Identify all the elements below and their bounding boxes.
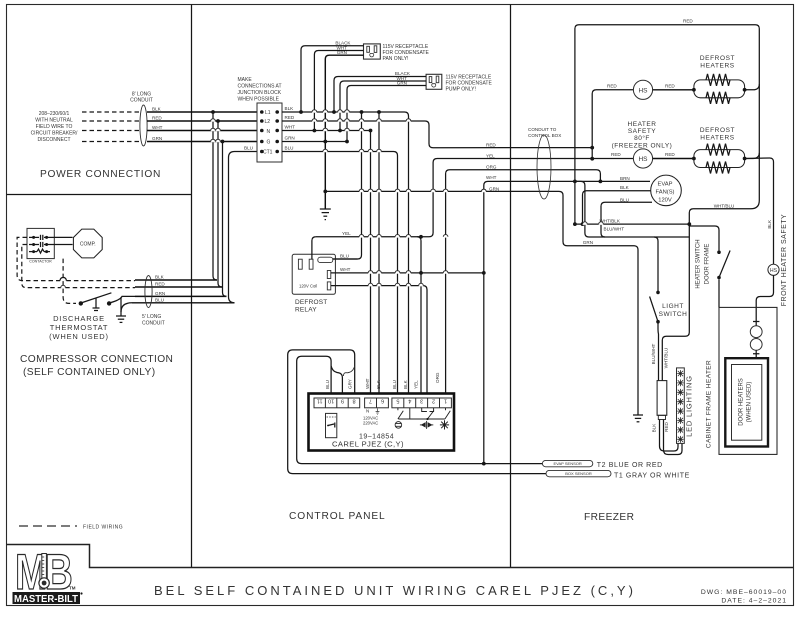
svg-text:BLK: BLK — [652, 423, 657, 433]
svg-text:HEATER: HEATER — [628, 121, 657, 128]
svg-text:CABINET FRAME HEATER: CABINET FRAME HEATER — [706, 360, 713, 448]
svg-text:BOX SENSOR: BOX SENSOR — [565, 471, 592, 476]
svg-text:80°F: 80°F — [634, 134, 650, 142]
svg-text:WHT: WHT — [486, 175, 497, 180]
svg-text:FREEZER: FREEZER — [584, 512, 634, 523]
svg-text:LIGHT: LIGHT — [662, 303, 684, 310]
svg-text:11: 11 — [317, 398, 323, 404]
svg-text:GRN: GRN — [152, 136, 162, 141]
svg-text:FRONT HEATER SAFETY: FRONT HEATER SAFETY — [781, 214, 788, 306]
svg-text:PAN ONLY!: PAN ONLY! — [383, 56, 409, 62]
svg-text:BLU/WHT: BLU/WHT — [604, 227, 625, 232]
svg-text:WHT: WHT — [152, 125, 163, 130]
svg-text:RED: RED — [611, 152, 621, 157]
svg-text:T2 BLUE OR RED: T2 BLUE OR RED — [597, 462, 663, 469]
svg-text:N: N — [366, 409, 369, 414]
svg-text:5' LONG: 5' LONG — [142, 314, 161, 320]
svg-text:JUNCTION BLOCK: JUNCTION BLOCK — [238, 90, 282, 96]
svg-text:ORG: ORG — [486, 165, 497, 170]
svg-text:EVAP: EVAP — [657, 182, 672, 188]
svg-text:RED: RED — [665, 152, 675, 157]
svg-text:GRN: GRN — [155, 291, 165, 296]
svg-text:YEL: YEL — [342, 231, 351, 236]
svg-text:3: 3 — [420, 398, 423, 404]
svg-text:COMP.: COMP. — [80, 242, 96, 248]
svg-text:L2: L2 — [265, 119, 271, 125]
svg-text:WHEN POSSIBLE: WHEN POSSIBLE — [238, 97, 280, 103]
svg-text:RED: RED — [486, 143, 496, 148]
svg-text:HEATERS: HEATERS — [700, 63, 734, 70]
svg-text:BLU: BLU — [392, 380, 397, 389]
svg-text:HS: HS — [770, 268, 778, 274]
svg-text:WHT/BLU: WHT/BLU — [664, 348, 669, 369]
svg-text:DEFROST: DEFROST — [295, 299, 327, 306]
svg-text:RED: RED — [665, 84, 675, 89]
svg-text:DOOR HEATERS: DOOR HEATERS — [739, 378, 745, 426]
svg-text:BLK: BLK — [403, 379, 408, 389]
svg-text:BLK: BLK — [285, 106, 295, 111]
svg-text:DWG: MBE–60019–00: DWG: MBE–60019–00 — [701, 589, 787, 596]
svg-text:FIELD WIRING: FIELD WIRING — [83, 525, 123, 531]
svg-text:DEFROST: DEFROST — [700, 55, 735, 62]
svg-text:BLU: BLU — [325, 380, 330, 389]
svg-text:BLK: BLK — [376, 379, 381, 389]
svg-text:8: 8 — [352, 398, 355, 404]
svg-text:WHT: WHT — [285, 125, 296, 130]
svg-text:BLK: BLK — [620, 185, 630, 190]
svg-text:(FREEZER ONLY): (FREEZER ONLY) — [612, 143, 673, 150]
svg-text:COMPRESSOR CONNECTION: COMPRESSOR CONNECTION — [20, 354, 173, 365]
svg-text:HEATERS: HEATERS — [700, 135, 734, 142]
svg-text:BLU/WHT: BLU/WHT — [651, 343, 656, 364]
svg-text:10: 10 — [328, 398, 334, 404]
svg-text:DISCHARGE: DISCHARGE — [53, 314, 105, 323]
svg-text:WHT: WHT — [340, 267, 351, 272]
svg-text:RED: RED — [683, 19, 693, 24]
svg-text:SAFETY: SAFETY — [628, 128, 656, 135]
svg-text:BRN: BRN — [620, 176, 630, 181]
svg-text:RELAY: RELAY — [295, 307, 317, 314]
svg-text:BLU: BLU — [244, 146, 253, 151]
svg-text:DATE: 4–2–2021: DATE: 4–2–2021 — [721, 598, 787, 605]
svg-text:DOOR FRAME: DOOR FRAME — [705, 244, 711, 285]
svg-text:GRY: GRY — [348, 379, 353, 389]
svg-text:T1 GRAY OR WHITE: T1 GRAY OR WHITE — [614, 473, 690, 480]
svg-text:CIRCUIT BREAKER/: CIRCUIT BREAKER/ — [31, 131, 78, 137]
svg-text:BLK: BLK — [152, 107, 162, 112]
svg-text:CONDUIT TO: CONDUIT TO — [528, 127, 557, 132]
svg-text:4: 4 — [408, 398, 411, 404]
svg-text:120V Coil: 120V Coil — [299, 284, 317, 289]
svg-text:120V: 120V — [658, 198, 672, 204]
svg-text:BLU: BLU — [285, 146, 294, 151]
svg-text:THERMOSTAT: THERMOSTAT — [50, 323, 109, 332]
svg-text:HEATER SWITCH: HEATER SWITCH — [696, 239, 702, 288]
svg-text:GRN: GRN — [285, 136, 295, 141]
svg-text:WHT: WHT — [365, 378, 370, 389]
svg-text:G: G — [267, 140, 271, 146]
svg-text:(WHEN USED): (WHEN USED) — [49, 332, 109, 341]
svg-text:5: 5 — [396, 398, 399, 404]
svg-text:220VAC: 220VAC — [363, 421, 378, 426]
svg-text:BLU: BLU — [155, 297, 164, 302]
svg-text:HS: HS — [638, 156, 648, 163]
svg-text:N: N — [267, 129, 271, 135]
svg-text:PUMP ONLY!: PUMP ONLY! — [446, 87, 476, 93]
svg-text:BLK: BLK — [155, 275, 165, 280]
svg-text:CONDUIT: CONDUIT — [142, 321, 165, 327]
svg-text:POWER CONNECTION: POWER CONNECTION — [40, 169, 161, 180]
svg-text:1: 1 — [444, 398, 447, 404]
svg-text:WHT/BLU: WHT/BLU — [714, 203, 735, 208]
svg-text:DEFROST: DEFROST — [700, 127, 735, 134]
svg-text:LED LIGHTING: LED LIGHTING — [685, 375, 694, 437]
svg-text:B: B — [45, 543, 73, 600]
svg-text:YEL: YEL — [486, 154, 495, 159]
svg-text:SWITCH: SWITCH — [659, 311, 688, 318]
svg-text:CONNECTIONS AT: CONNECTIONS AT — [238, 84, 282, 90]
svg-text:ORG: ORG — [435, 372, 440, 383]
svg-text:MAKE: MAKE — [238, 77, 253, 83]
svg-text:9: 9 — [341, 398, 344, 404]
svg-text:L1: L1 — [265, 110, 271, 116]
svg-text:YEL: YEL — [414, 380, 419, 389]
svg-text:RED: RED — [664, 421, 669, 431]
svg-text:MASTER-BILT: MASTER-BILT — [14, 594, 78, 605]
svg-text:GRN: GRN — [489, 186, 499, 191]
svg-text:RED: RED — [155, 282, 165, 287]
svg-text:CAREL PJEZ (C,Y): CAREL PJEZ (C,Y) — [332, 440, 404, 449]
svg-text:BEL SELF CONTAINED UNIT WIRING: BEL SELF CONTAINED UNIT WIRING CAREL PJE… — [154, 583, 636, 598]
svg-text:CONTACTOR: CONTACTOR — [29, 260, 52, 264]
svg-text:(SELF CONTAINED ONLY): (SELF CONTAINED ONLY) — [23, 367, 156, 378]
svg-text:BLU: BLU — [340, 254, 349, 259]
svg-text:RED: RED — [285, 115, 295, 120]
svg-text:EVAP SENSOR: EVAP SENSOR — [553, 461, 581, 466]
svg-text:6: 6 — [381, 398, 384, 404]
svg-text:CT1: CT1 — [263, 150, 273, 156]
svg-text:HS: HS — [638, 87, 648, 94]
svg-text:(WHEN USED): (WHEN USED) — [747, 382, 753, 423]
svg-text:FAN(S): FAN(S) — [655, 189, 674, 195]
svg-text:TM: TM — [69, 586, 76, 591]
svg-text:2: 2 — [432, 398, 435, 404]
svg-text:WITH NEUTRAL: WITH NEUTRAL — [35, 118, 73, 124]
svg-text:BLK: BLK — [767, 219, 772, 229]
svg-text:GRN: GRN — [583, 240, 593, 245]
svg-text:208–230/60/1: 208–230/60/1 — [39, 111, 70, 117]
svg-text:FIELD WIRE TO: FIELD WIRE TO — [36, 124, 73, 130]
svg-text:DISCONNECT: DISCONNECT — [37, 137, 70, 143]
svg-text:CONDUIT: CONDUIT — [130, 98, 153, 104]
svg-text:RED: RED — [607, 84, 617, 89]
svg-text:CONTROL PANEL: CONTROL PANEL — [289, 511, 386, 522]
svg-text:RED: RED — [152, 116, 162, 121]
svg-text:7: 7 — [369, 398, 372, 404]
